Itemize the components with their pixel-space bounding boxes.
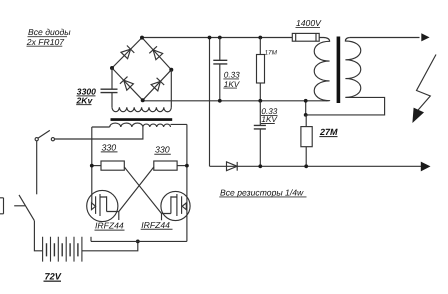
resistor R3 330 (left) [92, 161, 125, 170]
svg-text:27M: 27M [319, 127, 338, 137]
capacitor C2 0.33 1KV (column C bottom) [254, 101, 266, 167]
wire: HV output top line [350, 37, 420, 39]
bridge node right dot [169, 68, 173, 72]
diode bridge: arm bottom-right with diode D4 [143, 70, 172, 100]
transformer T2 core [337, 37, 341, 104]
resistor R2 27M [301, 115, 312, 166]
wire: top HV rail from bridge top node to fuse [142, 37, 292, 39]
node A1 dot on top rail [208, 36, 212, 40]
fuse F1 1400V [292, 33, 319, 41]
push-button S2 [0, 195, 34, 221]
wire: mid-rail to return loop link [305, 101, 307, 115]
node C3 dot on bottom output rail [258, 164, 262, 168]
wire: left corner stub up [90, 237, 92, 242]
capacitor C3 3300 2KV [101, 68, 118, 107]
node C1 dot on top rail [258, 36, 262, 40]
svg-text:1KV: 1KV [261, 115, 278, 124]
switch S1 (upper) [35, 130, 54, 140]
diode bridge: arm top-left with diode D1 [112, 38, 142, 68]
bridge node top dot [140, 36, 144, 40]
node battery dot on bottom rail [136, 240, 140, 244]
transformer T1 primary winding right half [143, 124, 171, 127]
transformer T1 primary winding left half [110, 123, 143, 127]
wire: MOSFET bottom source rail [91, 240, 187, 242]
resistor R4 330 (right) [154, 161, 187, 170]
svg-text:1KV: 1KV [224, 80, 241, 89]
transformer T1 secondary winding (top) [112, 107, 171, 111]
svg-text:72V: 72V [45, 271, 62, 281]
diode bridge: arm top-right with diode D2 [142, 38, 171, 70]
node D2 dot on return loop [304, 113, 308, 117]
svg-text:0.33: 0.33 [224, 71, 240, 80]
svg-text:2Kv: 2Kv [76, 95, 94, 105]
node left drain dot [90, 164, 94, 168]
transformer T2 HV secondary winding [345, 38, 360, 98]
wire: middle rail from bridge bottom node to HV primary bottom [143, 100, 327, 102]
label: 0.33 1KV (C2) [261, 107, 278, 124]
transistor Q1 IRFZ44 (left) [87, 190, 119, 221]
capacitor C1 0.33 1KV (column B) [213, 38, 227, 101]
node B2 dot on middle rail [218, 99, 222, 103]
arrow output top right [421, 33, 429, 41]
wire: push-button to battery minus [34, 221, 42, 251]
transformer T1 core [111, 118, 173, 121]
svg-text:330: 330 [102, 142, 117, 152]
svg-text:IRFZ44: IRFZ44 [141, 220, 170, 230]
resistor R1 17M (column C top) [257, 38, 265, 101]
wire: primary right end over to right drain rail [171, 123, 187, 125]
wire: primary left end to left drain rail [92, 126, 110, 128]
transformer T2 HV primary winding [314, 38, 329, 101]
wire: bridge right node down to T1 secondary right end [170, 70, 172, 108]
svg-text:2x FR107: 2x FR107 [26, 37, 65, 47]
svg-text:Все резисторы 1/4w: Все резисторы 1/4w [220, 187, 304, 197]
spark gap lightning bolt [417, 55, 437, 112]
spark arrowhead [412, 108, 424, 123]
wire: primary center tap down and left to switch [55, 127, 143, 139]
wire: cross diagonal from right 330 to left MOSFET [119, 167, 154, 212]
wire: bottom output rail [210, 165, 422, 167]
label: 0.33 1KV (C1) [224, 71, 241, 89]
wire: column A vertical from top rail down to bottom output rail [209, 38, 211, 167]
node B1 dot on top rail [218, 36, 222, 40]
arrow output bottom right [421, 162, 431, 172]
wire: switch left terminal down to push-button [36, 141, 38, 195]
wire: HV secondary return loop [306, 97, 385, 115]
label: 3300 2KV [76, 87, 97, 106]
wire: left drain rail down to left node and MOSFET [91, 127, 93, 203]
svg-text:Все диоды: Все диоды [28, 27, 71, 37]
node D3 dot on bottom output rail [304, 164, 308, 168]
bridge node left dot [110, 66, 114, 70]
wire: battery plus to bottom rail jog [82, 241, 138, 250]
diode D5 on bottom output rail [227, 162, 238, 171]
battery B1 72V [43, 237, 82, 262]
label: Все диоды 2x FR107 [26, 27, 71, 47]
bridge node bottom dot [141, 98, 145, 102]
node right drain dot [185, 164, 189, 168]
wire: cross diagonal from left 330 to right MOSFET [124, 167, 161, 214]
svg-text:330: 330 [155, 145, 170, 155]
svg-text:1400V: 1400V [296, 18, 322, 28]
wire: right drain rail down to right node, past MOSFET to bottom rail [186, 124, 188, 241]
svg-text:IRFZ44: IRFZ44 [95, 221, 124, 231]
transistor Q2 IRFZ44 (right) [161, 191, 190, 220]
svg-text:17M: 17M [265, 49, 278, 56]
diode bridge: arm bottom-left with diode D3 [112, 68, 143, 100]
node D1 dot on middle rail [304, 99, 308, 103]
node C2 dot on middle rail [258, 99, 262, 103]
